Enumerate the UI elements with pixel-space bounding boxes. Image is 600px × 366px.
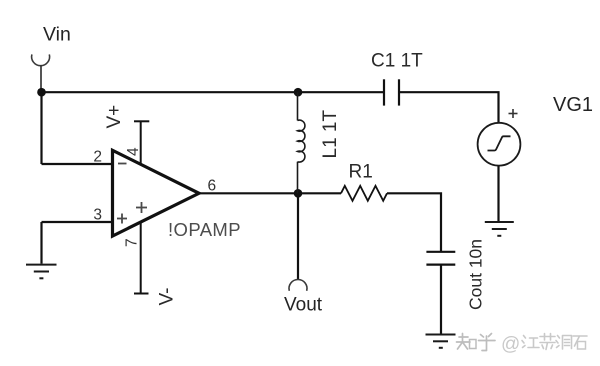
supply V- rail (140, 222, 142, 294)
wire Cout to ground (440, 265, 442, 334)
wire R1 to Cout corner (387, 193, 441, 251)
wire top horizontal Vin to C1 (42, 91, 384, 93)
svg-text:R1: R1 (349, 162, 373, 183)
capacitor C1 (384, 79, 399, 105)
node output junction (294, 189, 303, 198)
svg-text:@: @ (501, 334, 520, 355)
VG1 plus marker (509, 109, 518, 118)
node Vin junction (37, 88, 46, 97)
capacitor Cout (426, 252, 455, 265)
inductor L1 (298, 92, 305, 193)
supply V+ bar (134, 120, 149, 122)
svg-text:2: 2 (93, 149, 102, 166)
wire pin3 down to ground (40, 222, 42, 264)
ground below pin3 (26, 265, 57, 279)
svg-text:V-: V- (157, 288, 178, 306)
wire output down to Vout (297, 193, 299, 280)
svg-text:7: 7 (124, 238, 141, 247)
wire VG1 to ground (497, 166, 499, 221)
svg-text:4: 4 (125, 147, 142, 156)
svg-text:V+: V+ (104, 105, 125, 129)
op-amp minus marker (118, 163, 127, 165)
svg-text:6: 6 (208, 178, 217, 195)
svg-text:3: 3 (93, 207, 102, 224)
wire C1 to VG1 corner (400, 92, 499, 123)
op-amp U1 triangle (113, 150, 200, 236)
watermark zhihu (457, 334, 496, 351)
voltage generator VG1 (478, 123, 521, 166)
wire op-amp output (199, 192, 298, 194)
wire Vin stub (40, 66, 42, 93)
ground below VG1 (485, 222, 514, 236)
svg-text:!OPAMP: !OPAMP (168, 219, 241, 240)
supply V+ rail (140, 121, 142, 164)
port Vin (32, 54, 50, 65)
svg-text:VG1: VG1 (553, 94, 593, 116)
svg-text:L1 1T: L1 1T (320, 110, 341, 159)
svg-text:Cout 10n: Cout 10n (466, 239, 486, 310)
svg-text:Vin: Vin (43, 23, 71, 45)
resistor R1 (341, 186, 387, 201)
wire output to R1 (298, 192, 341, 194)
VG1 waveform (488, 136, 511, 150)
op-amp plus marker (pin3) (117, 214, 127, 224)
op-amp plus marker (center) (136, 202, 147, 213)
node top L1 junction (294, 88, 303, 97)
supply V- bar (134, 293, 149, 295)
ground below Cout (426, 335, 456, 348)
wire pin3 horizontal (42, 221, 113, 223)
port Vout (289, 279, 307, 290)
svg-text:C1 1T: C1 1T (371, 51, 423, 72)
svg-text:Vout: Vout (284, 294, 323, 315)
wire pin2 horizontal (42, 163, 113, 165)
wire Vin junction down to pin2 (40, 92, 42, 164)
